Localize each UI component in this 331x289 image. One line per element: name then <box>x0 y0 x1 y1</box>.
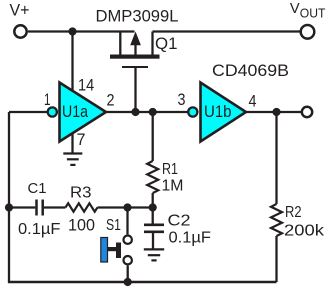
ground under C2 <box>144 249 164 260</box>
S1 button cap <box>101 238 108 263</box>
R1 bottom lead <box>152 193 154 208</box>
svg-text:U1b: U1b <box>204 102 232 121</box>
svg-text:DMP3099L: DMP3099L <box>96 7 179 26</box>
junction R2 top node <box>272 108 280 116</box>
R2 zigzag <box>271 204 282 236</box>
U1a triangle <box>60 83 107 142</box>
svg-text:0.1µF: 0.1µF <box>169 230 212 247</box>
op-amp U1b (inverter) <box>188 83 246 142</box>
R1 top lead <box>152 112 154 161</box>
Q1 gate lead <box>134 68 136 112</box>
wire U1a output to U1b input <box>106 111 188 113</box>
resistor R2 <box>271 112 282 282</box>
svg-text:14: 14 <box>78 75 94 94</box>
junction S1 branch <box>123 203 131 211</box>
svg-text:4: 4 <box>249 92 257 111</box>
R2 top lead <box>275 112 277 204</box>
Q1 drain leg <box>151 32 153 56</box>
transistor Q1 (PMOS) <box>110 32 160 113</box>
svg-text:C1: C1 <box>28 180 47 197</box>
ground under U1a <box>63 154 82 165</box>
wire U1b output to terminal <box>246 111 301 113</box>
svg-text:1M: 1M <box>162 178 184 195</box>
junction R1 top node <box>149 108 157 116</box>
svg-text:OUT: OUT <box>300 6 326 21</box>
U1a input bubble <box>48 107 57 116</box>
svg-text:V: V <box>290 0 300 17</box>
svg-text:3: 3 <box>178 90 186 109</box>
S1 bottom lead <box>127 266 129 283</box>
svg-text:V+: V+ <box>10 2 30 20</box>
R1 zigzag <box>147 161 158 193</box>
terminal V+ <box>14 25 26 37</box>
svg-text:0.1µF: 0.1µF <box>18 221 61 238</box>
S1 stem <box>107 247 117 251</box>
wire R3 to R1/C2 node <box>97 206 153 208</box>
wire rail to C1 <box>9 206 35 208</box>
svg-text:S1: S1 <box>106 217 121 234</box>
resistor R1 <box>147 112 158 208</box>
Q1 source leg <box>119 32 121 56</box>
wire pin 7 of U1a to ground <box>71 133 73 154</box>
U1b triangle <box>201 83 247 142</box>
C2 top lead <box>152 208 154 225</box>
capacitor C2 <box>144 208 164 250</box>
terminal output <box>302 107 312 117</box>
S1 bottom terminal <box>124 256 132 264</box>
S1 contact bar <box>116 243 121 259</box>
svg-text:U1a: U1a <box>62 102 88 121</box>
junction left rail / C1 <box>5 203 13 211</box>
C2 bottom lead <box>152 233 154 249</box>
svg-text:1: 1 <box>44 90 51 109</box>
R2 bottom lead <box>275 236 277 282</box>
svg-text:CD4069B: CD4069B <box>212 61 289 80</box>
S1 top terminal <box>124 236 132 244</box>
junction R1/C2 node <box>149 203 157 211</box>
S1 top lead <box>126 208 128 235</box>
wire left rail <box>8 112 10 282</box>
wire V+ to Q1 source <box>28 30 135 32</box>
terminal VOUT <box>301 25 315 39</box>
junction S1 / bottom rail <box>124 278 132 286</box>
wire Q1 drain to VOUT <box>153 30 301 32</box>
switch S1 (pushbutton) <box>101 208 132 283</box>
svg-text:7: 7 <box>77 130 86 149</box>
op-amp U1a (inverter) <box>48 83 106 142</box>
svg-text:C2: C2 <box>168 213 191 230</box>
svg-text:200k: 200k <box>284 223 325 240</box>
junction V+ / pin 14 branch <box>68 27 76 35</box>
svg-text:R1: R1 <box>162 161 178 178</box>
svg-text:Q1: Q1 <box>155 34 178 53</box>
resistor R3 <box>65 203 97 211</box>
svg-text:R3: R3 <box>70 185 92 202</box>
wire bottom rail <box>8 281 277 284</box>
capacitor C1 <box>37 200 43 216</box>
wire left rail to U1a input <box>9 111 47 113</box>
C2 plates <box>144 224 164 227</box>
junction Q1 gate node <box>131 108 139 116</box>
Q1 body arrow <box>134 45 136 56</box>
wire pin 14 of U1a <box>71 32 73 92</box>
U1b input bubble <box>188 107 197 116</box>
svg-text:R2: R2 <box>285 204 302 221</box>
wire C1 to R3 <box>44 206 66 208</box>
svg-text:2: 2 <box>107 90 115 109</box>
Q1 gate plate <box>122 66 148 68</box>
Q1 channel bar <box>110 55 160 59</box>
svg-text:100: 100 <box>68 216 95 235</box>
